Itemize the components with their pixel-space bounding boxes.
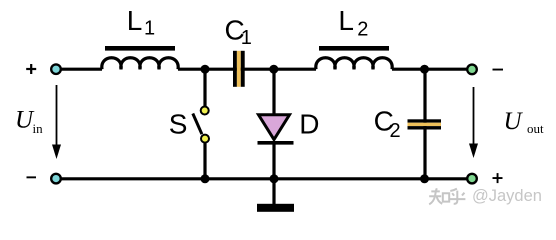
svg-text:2: 2 <box>357 19 368 41</box>
svg-text:1: 1 <box>144 18 155 40</box>
svg-text:L: L <box>127 5 143 36</box>
svg-text:in: in <box>33 121 44 136</box>
svg-text:D: D <box>299 108 319 139</box>
svg-text:L: L <box>338 5 354 36</box>
svg-text:1: 1 <box>241 27 252 49</box>
svg-text:S: S <box>169 108 188 139</box>
svg-text:out: out <box>527 121 544 136</box>
svg-text:U: U <box>504 108 524 135</box>
svg-text:@Jayden: @Jayden <box>472 187 542 205</box>
svg-text:2: 2 <box>390 120 401 142</box>
